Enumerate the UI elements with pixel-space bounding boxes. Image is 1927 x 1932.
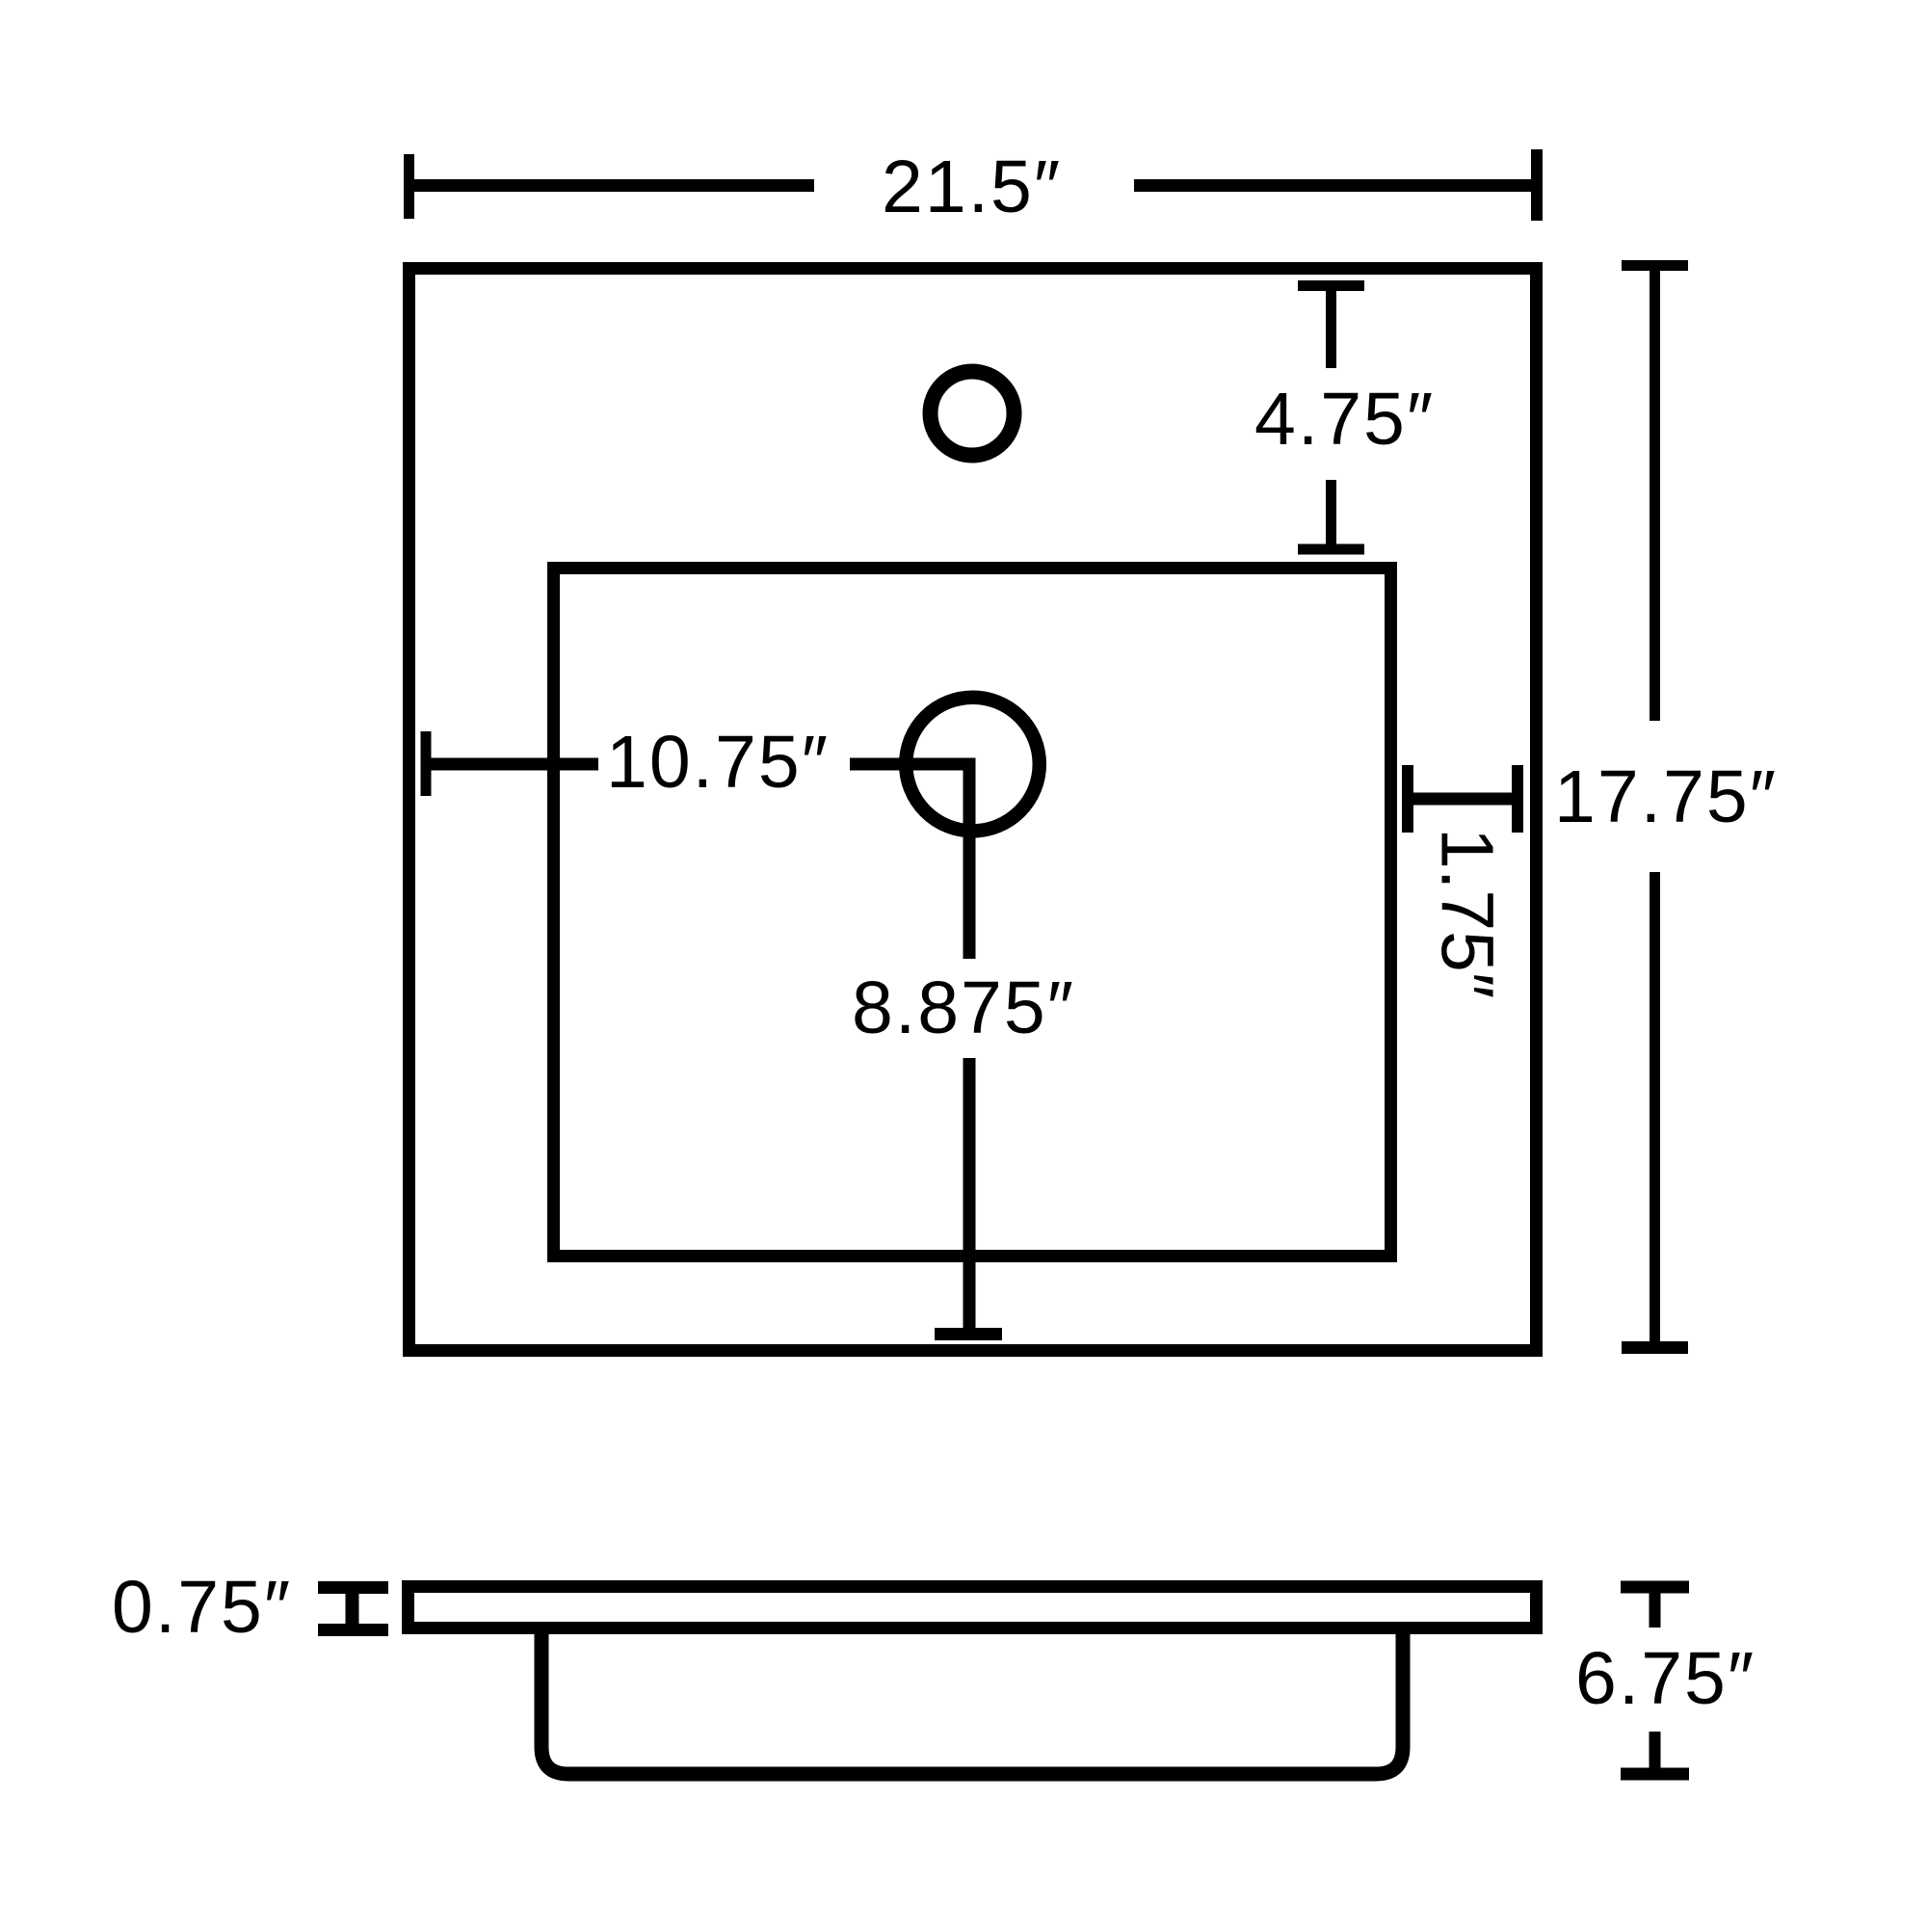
dim 4.75in top tick [1298,280,1364,291]
dim 6.75in bottom tick [1621,1768,1689,1781]
dim 10.75in line left segment [426,758,598,771]
dim 6.75in lower stub [1650,1732,1661,1774]
faucet hole [931,372,1015,456]
dim 8.875in bottom tick [935,1328,1002,1340]
dim 0.75in bottom tick [318,1624,388,1636]
dim 21.5in line left segment [409,179,815,192]
dim 0.75in connecting line [346,1588,359,1630]
svg-text:0.75″: 0.75″ [112,1566,292,1649]
svg-text:21.5″: 21.5″ [882,146,1062,228]
svg-text:4.75″: 4.75″ [1254,378,1435,461]
dim 21.5in right tick [1531,149,1543,221]
dim 10.75in left tick [421,731,432,796]
sink outer rim (top view) [409,269,1537,1351]
dim 21.5in line right segment [1134,179,1537,192]
svg-text:1.75″: 1.75″ [1426,828,1509,998]
dim 1.75in left tick [1402,765,1413,833]
dim 17.75in bottom tick [1622,1341,1688,1354]
drain center line horizontal + vertical upper [850,764,969,959]
dim 17.75in top tick [1622,260,1688,271]
dim 4.75in line lower segment [1326,480,1336,549]
drain hole [906,698,1040,832]
svg-text:10.75″: 10.75″ [606,721,830,804]
dim 17.75in line upper segment [1650,266,1660,722]
dim 6.75in top tick [1621,1581,1689,1594]
dim 21.5in left tick [404,154,414,219]
svg-text:6.75″: 6.75″ [1575,1637,1755,1720]
dim 4.75in line upper segment [1326,286,1336,369]
side view slab [409,1587,1537,1628]
dim 1.75in right tick [1512,765,1523,833]
dim 8.875in line lower segment [963,1058,976,1335]
dim 6.75in upper stub [1650,1587,1661,1628]
dim 4.75in bottom tick [1298,544,1364,555]
dim 17.75in line lower segment [1650,872,1660,1348]
side view basin outline [541,1622,1403,1774]
svg-text:8.875″: 8.875″ [852,966,1075,1049]
dim 1.75in line [1408,793,1518,806]
basin inner rectangle (top view) [554,569,1391,1257]
dim 0.75in top tick [318,1581,388,1594]
svg-text:17.75″: 17.75″ [1554,755,1778,838]
